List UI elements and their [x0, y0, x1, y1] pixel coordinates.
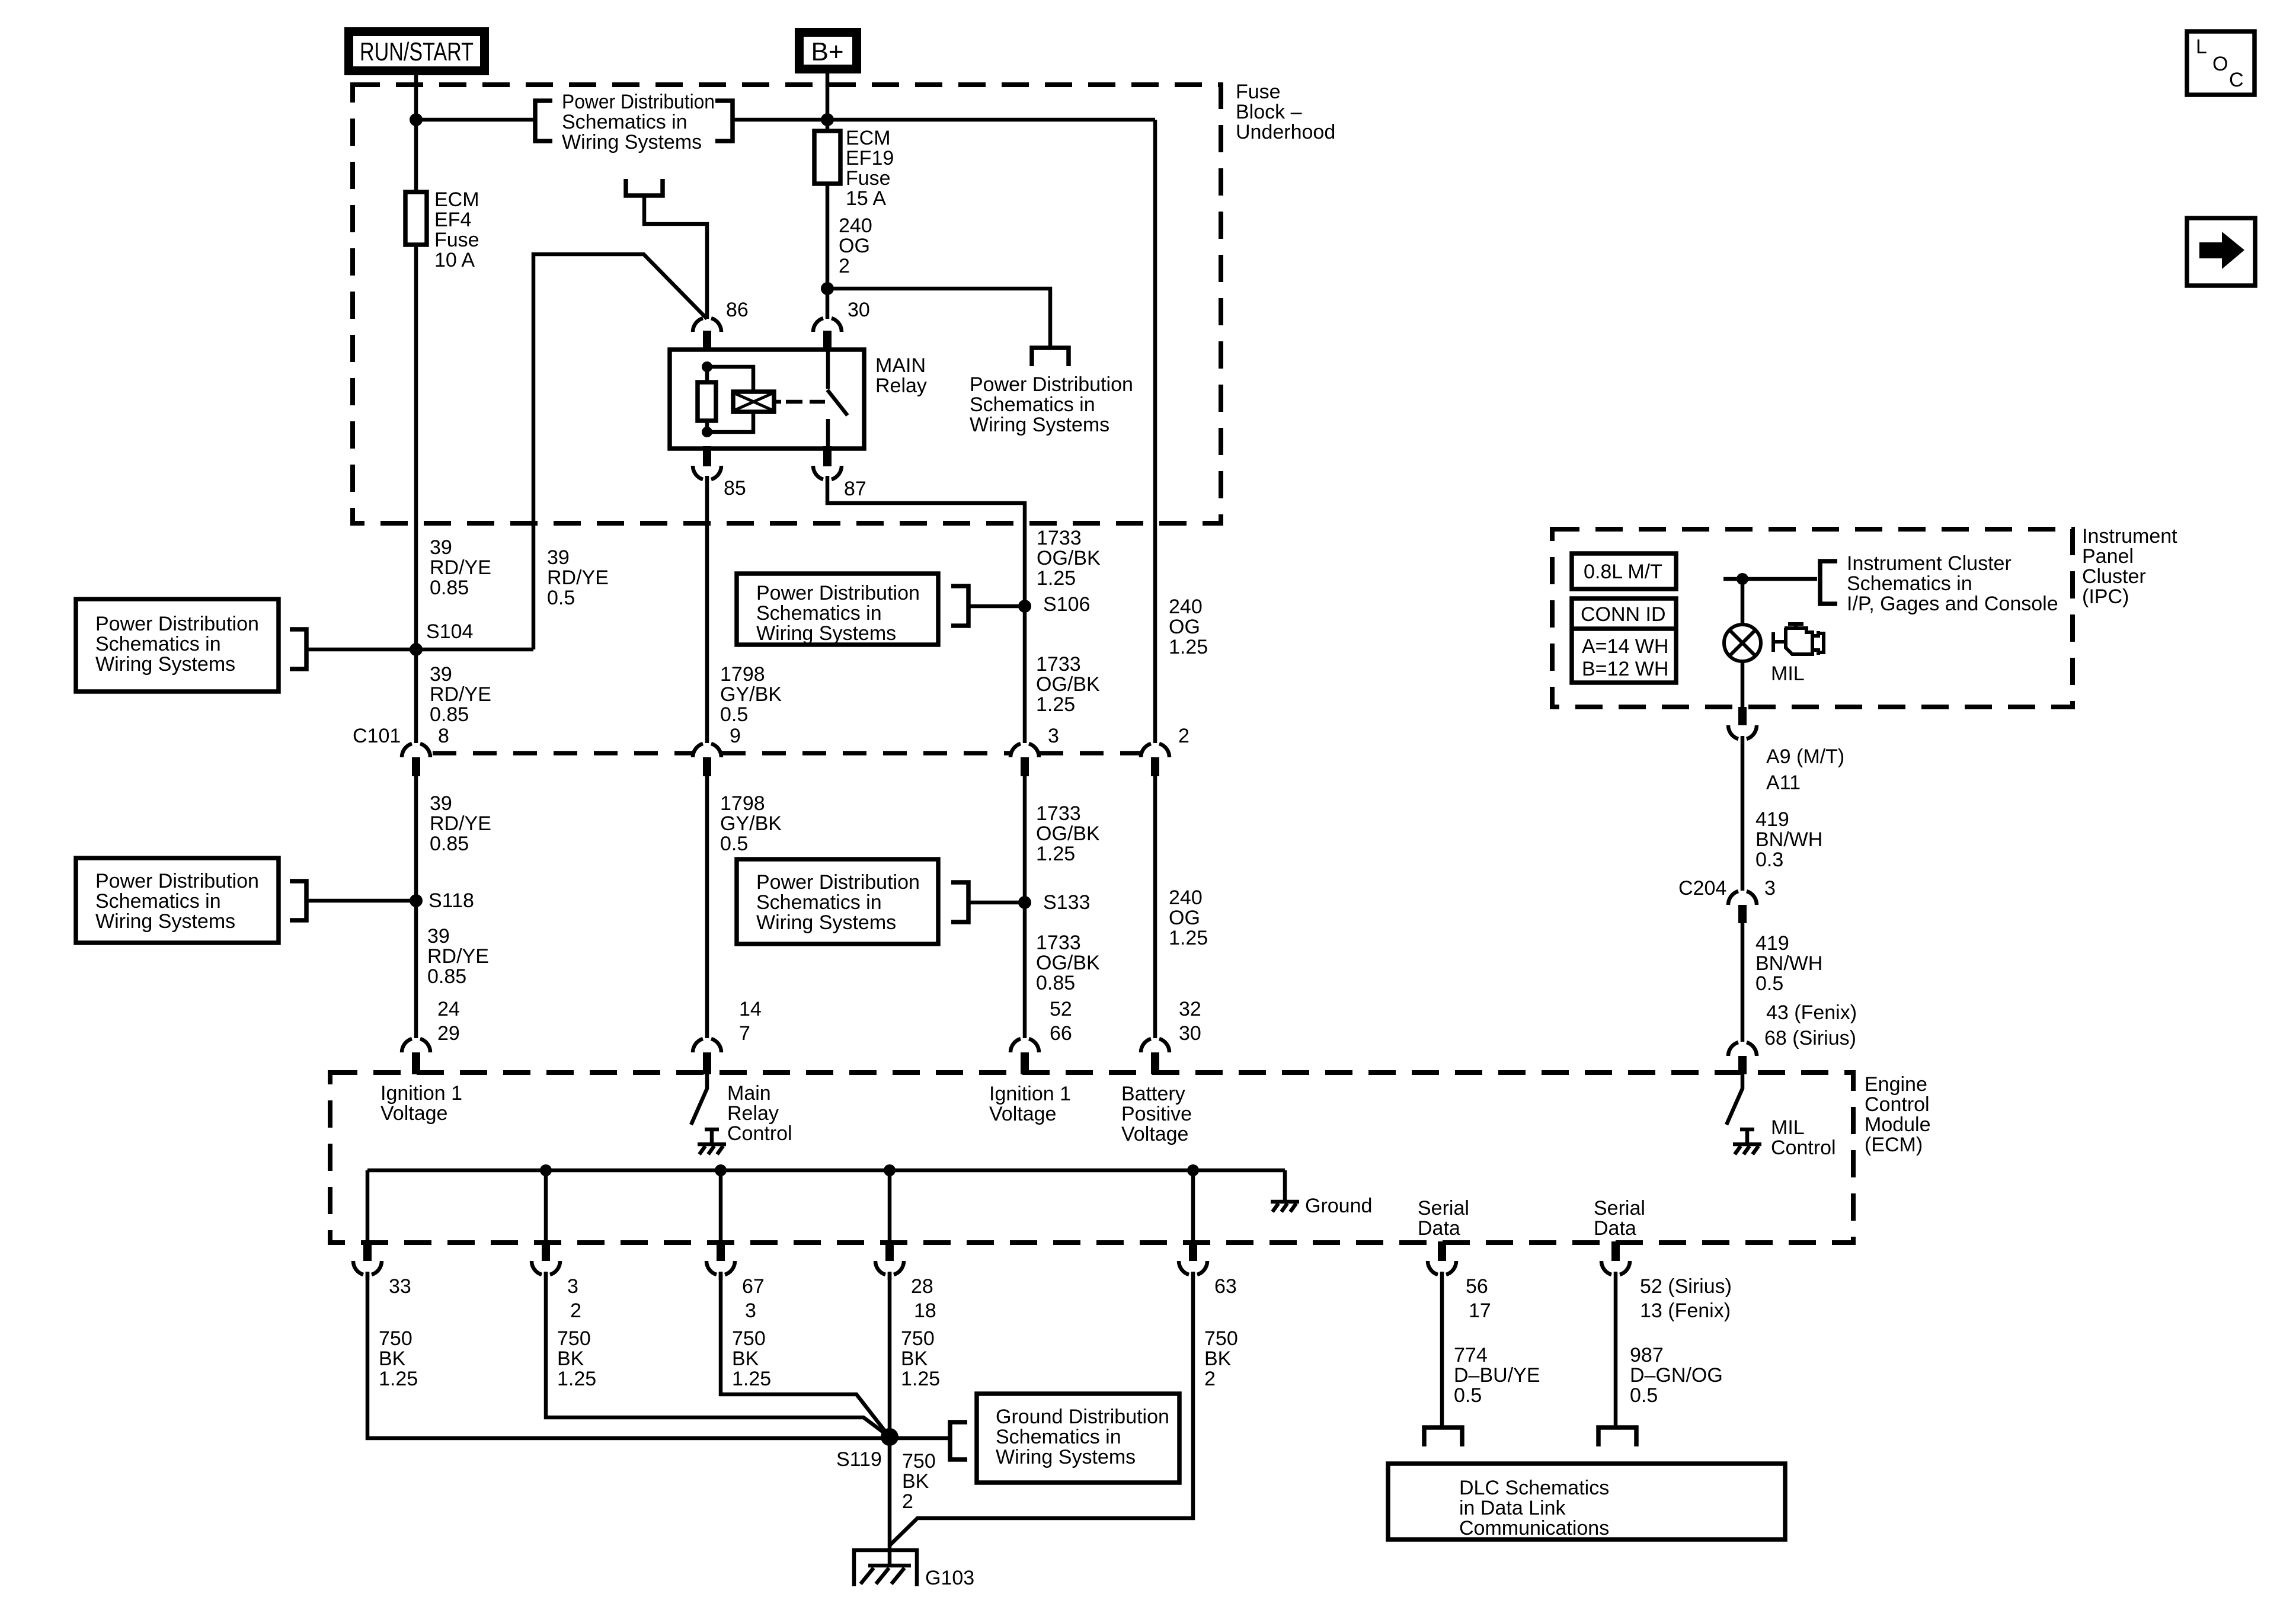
- bracket S104 reference: [290, 629, 306, 669]
- svg-text:3: 3: [567, 1275, 578, 1298]
- box Ground Distribution Schematics in Wiring Systems: [977, 1394, 1179, 1483]
- svg-text:G103: G103: [925, 1567, 974, 1589]
- wire pin 67 to S119: [721, 1272, 890, 1437]
- wire below connector pin 33: [366, 1272, 370, 1280]
- wire 39 RD/YE below C101: [414, 776, 418, 1038]
- svg-text:67: 67: [742, 1275, 765, 1298]
- svg-text:32: 32: [1179, 998, 1201, 1020]
- fuse EF4 ECM 10A: [405, 192, 427, 245]
- svg-text:87: 87: [844, 478, 866, 500]
- terminal RUN/START: [344, 27, 489, 75]
- wire MIL 419 BN/WH 0.5: [1741, 923, 1745, 1042]
- svg-text:Ground: Ground: [1305, 1195, 1372, 1217]
- box DLC Schematics in Data Link Communications: [1388, 1464, 1785, 1539]
- connector ECM pin 63: [1179, 1261, 1207, 1275]
- ground G103 symbol: [854, 1550, 917, 1586]
- node bus junction x1501: [884, 1164, 896, 1176]
- connector C204 pin 3: [1728, 891, 1757, 905]
- svg-text:S106: S106: [1043, 593, 1090, 616]
- svg-text:63: 63: [1214, 1275, 1237, 1298]
- splice S133: [1018, 896, 1031, 909]
- svg-text:A=14 WH: A=14 WH: [1582, 635, 1668, 658]
- node junction B+ fuse output: [821, 282, 834, 295]
- connector C101 pin 9: [693, 744, 721, 757]
- svg-text:CONN ID: CONN ID: [1581, 603, 1666, 626]
- svg-text:30: 30: [1179, 1022, 1201, 1045]
- wire MIL lamp down to IPC edge: [1741, 661, 1745, 710]
- wire junction down to MIL lamp: [1741, 579, 1745, 625]
- pin ECM pin 63 stub: [1189, 1244, 1197, 1261]
- splice S119: [881, 1428, 898, 1446]
- connector ECM pin 32/30: [1141, 1039, 1169, 1052]
- wire horizontal y202 left segment: [416, 118, 535, 122]
- svg-text:O: O: [2212, 53, 2228, 75]
- node bus junction x1216: [715, 1164, 727, 1176]
- wire MIL 419 BN/WH 0.3: [1741, 736, 1745, 891]
- svg-text:2: 2: [1178, 725, 1189, 747]
- pin 30 stub: [823, 331, 832, 351]
- wire horizontal y202 right segment to 240 OG drop: [733, 118, 1155, 122]
- wire pin 28 to S119: [888, 1272, 892, 1437]
- wire ECM pin 63 vertical: [1191, 1170, 1195, 1248]
- node bus junction x921: [540, 1164, 552, 1176]
- svg-text:C204: C204: [1678, 877, 1726, 900]
- wire serial data pin 52/13 down to DLC: [1614, 1272, 1618, 1427]
- pin C101-2 stub: [1151, 757, 1159, 776]
- svg-text:52 (Sirius): 52 (Sirius): [1640, 1275, 1732, 1298]
- terminal B+: [795, 28, 861, 73]
- ground ECM internal: [1271, 1202, 1299, 1212]
- svg-text:17: 17: [1469, 1299, 1491, 1322]
- connector ECM MIL pin 43/68: [1728, 1042, 1757, 1056]
- bracket DLC left: [1424, 1427, 1462, 1446]
- instrument panel cluster IPC dashed box: [1552, 529, 2073, 707]
- pin C101-9 stub: [703, 757, 711, 776]
- svg-text:29: 29: [437, 1022, 460, 1045]
- bracket DLC right: [1598, 1427, 1636, 1446]
- bracket S106 reference: [951, 586, 968, 626]
- wire S133 branch horizontal: [968, 901, 1025, 905]
- svg-text:28: 28: [911, 1275, 933, 1298]
- connector ECM pin 33: [353, 1261, 382, 1275]
- splice S104: [410, 643, 423, 656]
- bracket left of top power distribution label: [535, 101, 552, 141]
- pin 85 stub: [703, 446, 711, 466]
- ground MIL control: [1733, 1144, 1761, 1154]
- wire from top label cup down-right to relay pin 86: [644, 196, 707, 319]
- svg-text:A11: A11: [1766, 772, 1801, 794]
- connector C101 pin 8: [402, 744, 430, 757]
- wire 240 OG vertical inside fuse block: [1153, 120, 1157, 743]
- wire ECM pin 3/2 vertical: [544, 1170, 548, 1248]
- node bus junction x2013: [1187, 1164, 1199, 1176]
- relay MAIN box: [670, 350, 864, 449]
- relay coil top junction: [702, 361, 712, 372]
- wire riser 39 RD/YE 0.5 from S104 up to relay pin 86: [533, 254, 707, 649]
- icon check engine: [1773, 624, 1824, 655]
- wire S119 to ground distribution reference: [890, 1436, 950, 1441]
- svg-text:S118: S118: [428, 889, 474, 912]
- svg-text:85: 85: [724, 477, 746, 500]
- connector relay pin 86: [693, 318, 721, 332]
- svg-text:3: 3: [1764, 877, 1776, 900]
- wire S119 to G103: [888, 1437, 892, 1566]
- svg-text:7: 7: [739, 1022, 750, 1045]
- svg-text:3: 3: [1048, 725, 1059, 747]
- wire 240 OG below C101: [1153, 776, 1157, 1038]
- wire pin 85 down to C101 pin 9: [705, 476, 709, 743]
- wire 1733 OG/BK below C101: [1023, 776, 1027, 1038]
- wire pin 33 to S119: [367, 1272, 883, 1438]
- wire bus to internal ground: [1283, 1170, 1287, 1200]
- relay linkage dashed line: [786, 400, 825, 404]
- pin ECM 52/66 stub: [1021, 1052, 1029, 1074]
- connector C101 pin 2: [1141, 744, 1169, 757]
- bracket instrument cluster schematics reference: [1820, 561, 1837, 604]
- svg-text:3: 3: [745, 1299, 756, 1322]
- wire ECM pin 28/18 vertical: [888, 1170, 892, 1248]
- wire RUN/START vertical (39 circuit): [414, 73, 418, 743]
- svg-text:EngineControlModule(ECM): EngineControlModule(ECM): [1865, 1073, 1931, 1156]
- pin C204-3 stub: [1738, 905, 1747, 923]
- node junction MIL feed: [1737, 573, 1748, 585]
- svg-text:A9 (M/T): A9 (M/T): [1766, 745, 1844, 768]
- wire below connector pin 28/18: [888, 1272, 892, 1280]
- pin ECM MIL stub: [1738, 1056, 1747, 1074]
- resistor inside relay: [698, 382, 716, 421]
- switch MIL control driver: [1726, 1074, 1742, 1125]
- connector relay pin 30: [813, 318, 842, 332]
- wire pin 87 down right to 1733 OG/BK drop: [827, 476, 1025, 743]
- connector relay pin 87: [813, 466, 842, 479]
- switch main relay control driver: [691, 1074, 707, 1125]
- svg-text:S133: S133: [1043, 891, 1090, 914]
- pin ECM pin 33 stub: [363, 1244, 372, 1261]
- bracket right of top power distribution label: [715, 101, 733, 141]
- icon LOC box: [2187, 31, 2255, 95]
- box CONN ID: [1572, 598, 1676, 683]
- svg-text:13 (Fenix): 13 (Fenix): [1640, 1299, 1731, 1322]
- bracket ground distribution reference: [950, 1422, 967, 1459]
- wire S104 branch horizontal: [306, 648, 533, 652]
- pin serial data pin 56/17 stub: [1438, 1241, 1446, 1261]
- wire IPC MIL feed horizontal: [1723, 577, 1817, 581]
- relay coil bottom junction: [702, 427, 712, 437]
- bracket S133 reference: [951, 882, 968, 922]
- svg-text:30: 30: [848, 299, 870, 321]
- engine control module ECM dashed box: [330, 1073, 1853, 1243]
- svg-text:S119: S119: [836, 1448, 882, 1471]
- bracket cap over power distribution label (right): [1032, 348, 1069, 366]
- pin C101-8 stub: [412, 757, 420, 776]
- svg-text:52: 52: [1050, 998, 1072, 1020]
- svg-text:C: C: [2229, 69, 2244, 91]
- svg-text:RUN/START: RUN/START: [360, 37, 474, 66]
- ground main relay control: [698, 1144, 726, 1154]
- svg-text:0.8L M/T: 0.8L M/T: [1584, 561, 1662, 583]
- connector ECM pin 24/29: [402, 1039, 430, 1052]
- box Power Distribution Schematics in Wiring Systems (S104): [76, 599, 279, 692]
- relay switch contact: [827, 350, 848, 449]
- wire from B+ junction to power distribution reference: [827, 289, 1050, 347]
- box Power Distribution Schematics in Wiring Systems (S133): [737, 859, 938, 944]
- wire below connector pin 3/2: [544, 1272, 548, 1280]
- pin ECM 32/30 stub: [1151, 1052, 1159, 1074]
- pin C101-3 stub: [1021, 757, 1029, 776]
- svg-text:B=12 WH: B=12 WH: [1582, 658, 1668, 680]
- bracket S118 reference: [290, 881, 306, 920]
- svg-text:56: 56: [1466, 1275, 1488, 1298]
- relay coil box with X: [733, 392, 774, 412]
- svg-text:S104: S104: [426, 620, 473, 643]
- connector ECM pin 28/18: [875, 1261, 904, 1275]
- node junction RUN/START - bus 202: [410, 113, 423, 126]
- box Power Distribution Schematics in Wiring Systems (S118): [76, 858, 279, 943]
- wire below connector pin 63: [1191, 1272, 1195, 1280]
- svg-text:43 (Fenix): 43 (Fenix): [1766, 1001, 1857, 1024]
- connector ECM pin 67/3: [706, 1261, 735, 1275]
- connector ECM pin 14/7: [693, 1039, 721, 1052]
- wire serial data pin 56/17 down to DLC: [1440, 1272, 1444, 1427]
- svg-text:14: 14: [739, 998, 762, 1020]
- wire coil stub to linkage: [774, 400, 781, 404]
- wire S106 branch horizontal: [968, 604, 1025, 609]
- connector C101 dashed line: [433, 751, 1141, 756]
- box Power Distribution Schematics in Wiring Systems (S106): [737, 574, 938, 645]
- svg-text:L: L: [2196, 36, 2207, 58]
- node junction B+ y202: [821, 113, 834, 126]
- wire below connector pin 67/3: [719, 1272, 723, 1280]
- lamp MIL indicator: [1724, 625, 1761, 661]
- wire B+ vertical: [826, 73, 830, 319]
- svg-text:9: 9: [730, 725, 741, 747]
- pin ECM 14/7 stub: [703, 1052, 711, 1074]
- svg-text:68 (Sirius): 68 (Sirius): [1764, 1027, 1856, 1049]
- pin ECM pin 3/2 stub: [542, 1244, 550, 1261]
- svg-text:86: 86: [726, 299, 749, 321]
- svg-text:C101: C101: [353, 725, 401, 747]
- svg-text:B+: B+: [811, 37, 843, 66]
- pin serial data pin 52/13 stub: [1611, 1241, 1620, 1261]
- wire 1798 GY/BK below C101: [705, 776, 709, 1038]
- box 0.8L M/T: [1572, 553, 1676, 589]
- wire ECM pin 67/3 vertical: [719, 1170, 723, 1248]
- svg-text:2: 2: [570, 1299, 581, 1322]
- svg-text:8: 8: [438, 725, 449, 747]
- connector relay pin 85: [693, 466, 721, 479]
- svg-text:24: 24: [437, 998, 460, 1020]
- pin ECM pin 28/18 stub: [885, 1244, 894, 1261]
- wire pin 63 return to ground: [890, 1272, 1193, 1545]
- connector serial data pin 56/17: [1428, 1261, 1456, 1275]
- svg-text:18: 18: [914, 1299, 936, 1322]
- fuse EF19 ECM 15A: [814, 131, 840, 184]
- connector ECM pin 52/66: [1011, 1039, 1039, 1052]
- pin 86 stub: [703, 331, 711, 351]
- pin ECM 24/29 stub: [412, 1052, 420, 1074]
- splice S118: [410, 894, 423, 907]
- wire ECM pin 33 vertical: [366, 1170, 370, 1248]
- connector C101 pin 3: [1011, 744, 1039, 757]
- icon arrow box: [2187, 218, 2255, 286]
- svg-text:ECMEF4Fuse10 A: ECMEF4Fuse10 A: [434, 188, 479, 271]
- pin IPC MIL output stub: [1738, 707, 1747, 725]
- svg-text:66: 66: [1050, 1022, 1072, 1045]
- svg-text:BatteryPositiveVoltage: BatteryPositiveVoltage: [1121, 1083, 1192, 1145]
- wire relay coil branch: [707, 367, 753, 432]
- wire pin 3 to S119: [546, 1272, 890, 1437]
- wire ECM internal ground bus: [367, 1169, 1285, 1173]
- connector serial data pin 52/13: [1601, 1261, 1630, 1275]
- fuse block underhood dashed box: [353, 85, 1221, 523]
- connector ECM pin 3/2: [532, 1261, 560, 1275]
- svg-text:MIL: MIL: [1771, 662, 1805, 685]
- splice S106: [1018, 600, 1031, 613]
- pin ECM pin 67/3 stub: [717, 1244, 725, 1261]
- connector IPC MIL output: [1728, 725, 1757, 739]
- pin 87 stub: [823, 446, 832, 466]
- wire S118 branch horizontal: [306, 899, 416, 903]
- svg-text:33: 33: [389, 1275, 411, 1298]
- bracket cup under top power distribution label: [626, 179, 663, 196]
- svg-text:MAINRelay: MAINRelay: [875, 354, 927, 397]
